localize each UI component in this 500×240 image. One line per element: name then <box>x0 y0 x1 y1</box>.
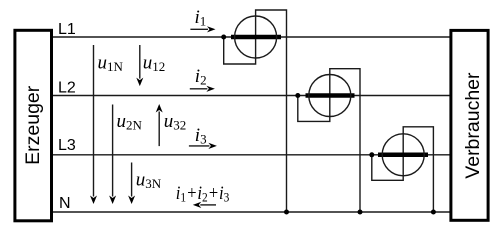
wire L1 <box>53 36 450 38</box>
svg-text:u1N: u1N <box>98 53 124 75</box>
voltage arrow u12 <box>139 45 141 79</box>
svg-text:u2N: u2N <box>117 111 143 132</box>
CT2 core circle <box>309 75 351 117</box>
svg-text:u12: u12 <box>143 53 166 75</box>
junction node CT3-N <box>431 210 436 215</box>
junction node CT1-N <box>284 210 289 215</box>
CT2 primary bar <box>306 93 355 98</box>
svg-text:u3N: u3N <box>136 169 162 191</box>
CT3 primary bar <box>378 153 428 158</box>
current arrow i1+i2+i3 (points left) <box>200 204 216 206</box>
wire L2 <box>53 95 450 97</box>
voltage arrow u32 (points up) <box>158 112 160 147</box>
generator box (Erzeuger) <box>15 30 52 221</box>
svg-text:i3: i3 <box>195 125 207 147</box>
CT3 core circle <box>382 134 424 176</box>
CT1 primary bar <box>231 35 281 40</box>
CT1 core circle <box>235 16 277 58</box>
junction node L3-CT3 <box>369 152 374 157</box>
junction node CT2-N <box>358 210 363 215</box>
voltage arrow u3N <box>131 163 133 197</box>
current arrow i1 <box>190 28 208 30</box>
wire N <box>53 211 450 213</box>
current transformer CT2 secondary wire <box>298 69 360 212</box>
svg-text:L2: L2 <box>58 80 76 97</box>
current transformer CT3 secondary wire <box>372 127 434 212</box>
svg-text:i1+i2+i3: i1+i2+i3 <box>176 183 230 205</box>
voltage arrow u2N <box>112 105 114 197</box>
svg-text:N: N <box>59 195 71 212</box>
svg-text:L1: L1 <box>58 21 76 38</box>
svg-text:i1: i1 <box>195 7 207 29</box>
load box (Verbraucher) <box>451 30 488 220</box>
svg-text:Verbraucher: Verbraucher <box>462 72 484 179</box>
svg-text:Erzeuger: Erzeuger <box>22 85 44 165</box>
junction node L1-CT1 <box>221 35 226 40</box>
svg-text:u32: u32 <box>164 111 187 132</box>
svg-text:L3: L3 <box>58 137 76 154</box>
current arrow i3 <box>189 145 210 147</box>
junction node L2-CT2 <box>295 93 300 98</box>
svg-text:i2: i2 <box>195 66 207 88</box>
wire L3 <box>53 154 450 156</box>
voltage arrow u1N <box>93 45 95 197</box>
current arrow i2 <box>190 88 208 90</box>
current transformer CT1 secondary wire <box>224 10 287 212</box>
